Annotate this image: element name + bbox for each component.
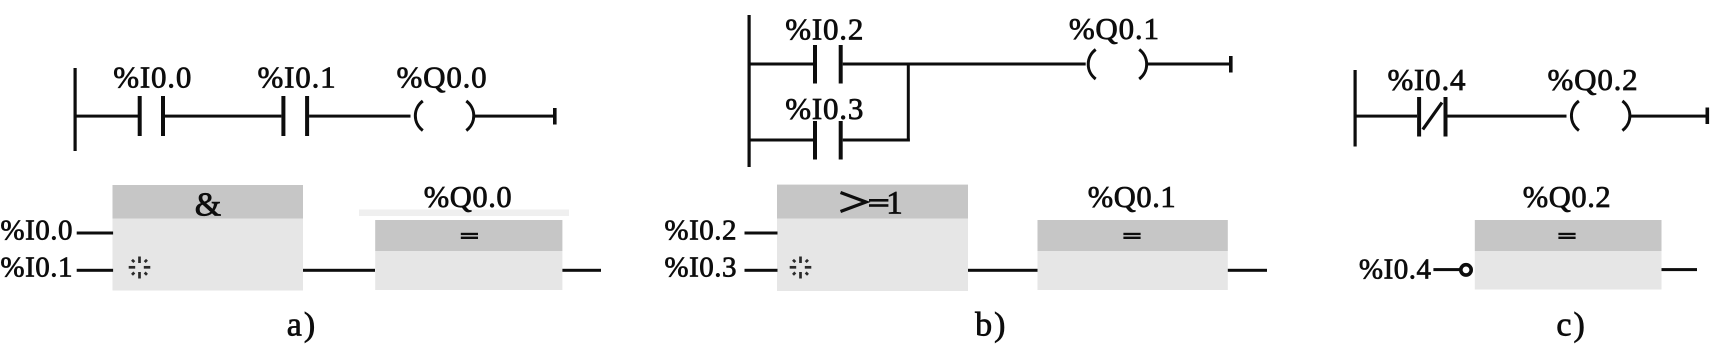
coil %Q0.0 right paren [466, 101, 473, 131]
AND block U1 header [113, 185, 304, 219]
OR junction vertical wire [907, 63, 910, 142]
contact %I0.2 right bar [839, 45, 843, 84]
= symbol (a) top bar [461, 233, 478, 235]
svg-text:%I0.0: %I0.0 [0, 215, 73, 247]
svg-text:%Q0.0: %Q0.0 [424, 180, 513, 214]
NC contact slash [1423, 103, 1442, 130]
contact %I0.0 right bar [161, 96, 165, 136]
left power rail (b) [748, 15, 751, 167]
assign block =Q0.0 header [375, 220, 562, 251]
wire rail to contact %I0.4 [1355, 115, 1417, 118]
svg-text:%I0.3: %I0.3 [664, 252, 737, 284]
left power rail (c) [1354, 70, 1357, 147]
right terminal bar (c) [1706, 108, 1710, 125]
assign block =Q0.1 header [1038, 220, 1228, 251]
svg-text:%Q0.0: %Q0.0 [397, 60, 488, 95]
output wire of = block (b) [1228, 269, 1267, 272]
assign block =Q0.2 header [1475, 220, 1662, 251]
wire contact %I0.2 to coil [843, 63, 1086, 66]
input wire %I0.4 to negation circle [1433, 268, 1460, 271]
svg-text:b): b) [975, 307, 1007, 344]
svg-text:%I0.0: %I0.0 [113, 60, 192, 95]
OR symbol equals top bar [869, 199, 888, 202]
wire rail to contact %I0.3 (lower rung) [749, 139, 813, 142]
contact %I0.2 left bar [813, 45, 817, 84]
wire contact %I0.4 to coil [1448, 115, 1567, 118]
wire coil to right terminal (b) [1148, 63, 1230, 66]
svg-text:%Q0.1: %Q0.1 [1069, 11, 1160, 46]
output wire of = block (c) [1662, 268, 1698, 271]
wire contact %I0.1 to coil [309, 115, 410, 118]
left power rail (a) [74, 68, 77, 151]
placeholder asterisk icon (OR block) [790, 257, 812, 279]
input wire %I0.3 to OR block [745, 269, 778, 272]
svg-text:%Q0.2: %Q0.2 [1548, 62, 1639, 97]
= symbol (c) top bar [1558, 233, 1575, 235]
svg-text:%I0.4: %I0.4 [1387, 62, 1466, 97]
svg-text:%I0.1: %I0.1 [0, 252, 73, 284]
contact %I0.3 right bar [839, 121, 843, 160]
coil %Q0.2 right paren [1622, 101, 1629, 131]
OR symbol equals bottom bar [869, 204, 888, 207]
wire contact %I0.3 to junction [843, 139, 910, 142]
AND block U1 body [113, 219, 304, 291]
OR block U2 header [777, 185, 968, 219]
contact %I0.1 right bar [305, 96, 309, 136]
OR block U2 body [777, 219, 968, 292]
svg-text:1: 1 [886, 186, 903, 222]
svg-text:%Q0.2: %Q0.2 [1523, 180, 1612, 214]
svg-text:%Q0.1: %Q0.1 [1088, 180, 1177, 214]
svg-text:%I0.3: %I0.3 [785, 91, 864, 126]
NC contact %I0.4 right bar [1444, 97, 1448, 137]
contact %I0.3 left bar [813, 121, 817, 160]
contact %I0.1 left bar [281, 96, 285, 136]
wire AND block to = block (a) [303, 269, 375, 272]
svg-text:%I0.2: %I0.2 [664, 215, 737, 247]
= symbol (c) bottom bar [1558, 237, 1575, 239]
= symbol (b) top bar [1123, 233, 1140, 235]
svg-text:c): c) [1556, 307, 1586, 344]
svg-text:%I0.4: %I0.4 [1359, 254, 1432, 286]
placeholder asterisk icon (AND block) [129, 257, 151, 279]
svg-text:&: & [195, 187, 221, 224]
output wire of = block (a) [562, 269, 601, 272]
assign block =Q0.1 body [1038, 251, 1228, 290]
coil %Q0.0 left paren [415, 101, 422, 131]
svg-text:%I0.2: %I0.2 [785, 12, 864, 47]
ghost band above = block (a) [359, 210, 569, 217]
coil %Q0.1 left paren [1088, 50, 1095, 80]
wire between contacts a [165, 115, 281, 118]
right terminal bar (a) [553, 108, 557, 125]
wire coil to right terminal (c) [1631, 115, 1706, 118]
NC contact %I0.4 left bar [1417, 97, 1421, 137]
right terminal bar (b) [1229, 56, 1233, 73]
assign block =Q0.2 body [1475, 251, 1662, 290]
coil %Q0.2 left paren [1571, 101, 1578, 131]
assign block =Q0.0 body [375, 251, 562, 290]
contact %I0.0 left bar [138, 96, 142, 136]
wire coil to right terminal (a) [475, 115, 554, 118]
wire rail to contact %I0.0 [75, 115, 138, 118]
coil %Q0.1 right paren [1139, 50, 1146, 80]
input wire %I0.0 to AND block [77, 232, 113, 235]
= symbol (b) bottom bar [1123, 237, 1140, 239]
wire rail to contact %I0.2 [749, 63, 813, 66]
input wire %I0.1 to AND block [77, 269, 113, 272]
negation circle at = block input [1461, 265, 1471, 275]
input wire %I0.2 to OR block [745, 232, 778, 235]
svg-text:%I0.1: %I0.1 [258, 60, 337, 95]
svg-text:a): a) [287, 307, 317, 344]
OR symbol greater-than stroke [841, 193, 867, 212]
= symbol (a) bottom bar [461, 237, 478, 239]
wire OR block to = block (b) [968, 269, 1038, 272]
